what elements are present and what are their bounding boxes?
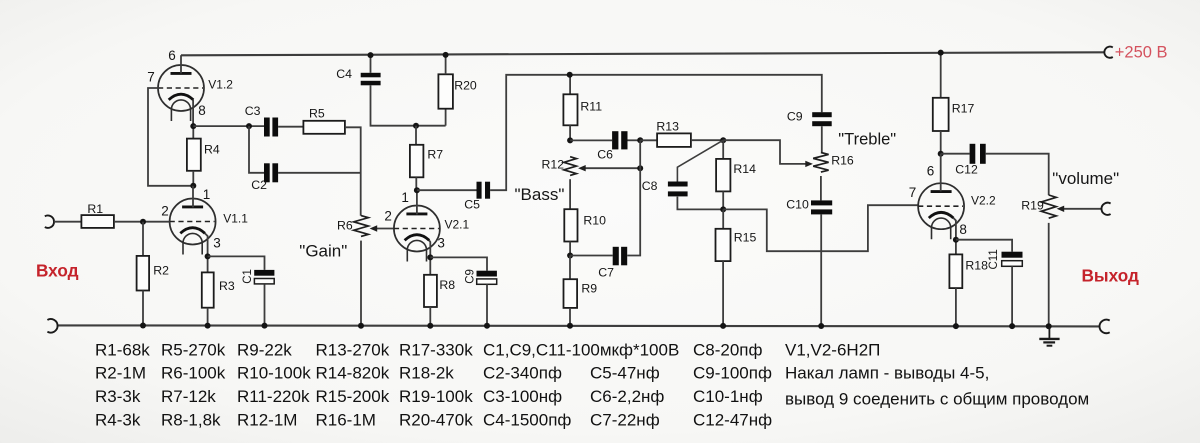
svg-text:R6: R6 [337,219,353,233]
wire V1.1 cathode pin 3 lead [205,233,208,256]
svg-text:C1: C1 [242,269,254,284]
svg-text:C2: C2 [251,178,267,192]
wire V2.1 plate to C5 [417,189,477,191]
svg-text:R15-200k: R15-200k [316,387,390,406]
resistor R14 body [716,159,730,192]
capacitor C11 (electrolytic) [1002,252,1023,267]
junction [368,52,374,58]
wire node to R13 [640,139,657,141]
wire R1 to V1.1 grid pin 2 [114,221,170,223]
wire ground bottom rail [57,325,1100,326]
resistor R20 body [438,74,453,108]
wire R16 to C10 [820,176,822,200]
wire R18 to ground rail [955,288,957,326]
wire cathode node to C1 [208,256,265,270]
svg-text:R11-220k: R11-220k [237,387,310,406]
junction [413,123,419,129]
svg-text:C3-100нф: C3-100нф [483,387,562,406]
triode V2.2 [918,183,964,239]
wire node to R15 [722,209,724,228]
junction [953,323,959,329]
svg-text:R6-100k: R6-100k [161,364,226,383]
wire V1.2 grid pin 7 to R4 bottom [148,88,193,186]
wire V2.1 plate pin 1 riser [416,190,418,214]
svg-text:R19-100k: R19-100k [399,387,473,406]
triode V1.2 [158,65,204,121]
wire C1 to ground rail [264,284,266,325]
junction [427,323,433,329]
wire C9 to R16 [821,126,823,152]
svg-text:Выход: Выход [1082,266,1139,286]
svg-text:1: 1 [401,190,409,205]
svg-text:R19: R19 [1021,199,1044,213]
potentiometer R16 zigzag [813,153,828,173]
potentiometer R19 wiper arrowhead [1057,206,1065,212]
terminal output ground (bottom right) [1100,320,1110,334]
svg-text:C5-47нф: C5-47нф [590,364,660,383]
junction [720,323,726,329]
svg-text:"Treble": "Treble" [838,131,896,149]
svg-text:C4: C4 [336,67,352,81]
capacitor C6 [612,131,627,149]
junction [1009,323,1015,329]
svg-text:3: 3 [437,236,445,251]
wire node to R20 [445,109,447,126]
wire C11 to ground rail [1011,266,1013,326]
svg-text:C6: C6 [597,148,613,162]
wire C8 diagonal from R13 node [677,140,723,181]
wire cathode node to C11 [956,240,1012,252]
svg-text:R17-330k: R17-330k [399,341,473,360]
wire V1.2 plate pin 6 to rail [180,55,182,73]
svg-text:C1,C9,C11-100мкф*100В: C1,C9,C11-100мкф*100В [483,341,679,360]
wire input to R1 [54,221,81,223]
svg-text:V2.2: V2.2 [971,194,996,208]
wire C12 to R19 top [986,154,1049,195]
junction [567,253,573,259]
wire R19 bottom to ground rail [1048,223,1050,326]
svg-text:C4-1500пф: C4-1500пф [483,410,571,429]
terminal output (signal) [1101,203,1110,215]
junction [140,323,146,329]
svg-text:R3: R3 [219,279,235,293]
svg-text:R11: R11 [580,99,602,113]
svg-text:R1: R1 [87,202,103,216]
svg-text:R14-820k: R14-820k [316,364,390,383]
capacitor C7 [613,247,627,265]
svg-text:R9-22k: R9-22k [237,341,292,360]
wire node to R7 [415,126,417,145]
svg-text:C6-2,2нф: C6-2,2нф [590,387,664,406]
wire cathode node to C9 bypass [430,257,487,270]
wire node to C6 [570,139,612,141]
svg-text:R18-2k: R18-2k [399,364,454,383]
svg-text:R8-1,8k: R8-1,8k [161,410,221,429]
wire pin8 node to R4 top [192,126,194,139]
resistor R2 body [137,256,150,291]
svg-text:R13: R13 [656,119,679,133]
svg-text:R15: R15 [734,230,757,244]
notes text [785,341,1089,409]
triode V2.1 [394,206,440,262]
wire tone stack out to V2.2 grid pin 7 [723,205,918,251]
wire top feed to R11 [569,75,571,95]
junction [567,137,573,143]
junction [414,187,420,193]
wire R4 bottom to grid node [192,171,194,186]
wire R12 wiper line [586,167,641,169]
svg-text:6: 6 [168,48,176,63]
svg-text:R17: R17 [952,101,975,115]
junction [443,52,449,58]
wire +250V top rail [181,52,1105,55]
svg-text:1: 1 [203,187,211,202]
svg-text:R10-100k: R10-100k [237,364,311,383]
wire R13 to node [691,139,723,141]
triode V1.1 [170,199,216,255]
wire node to C7 [570,255,613,257]
junction [953,237,959,243]
wire grid node to R2 [142,222,144,256]
svg-text:V2.1: V2.1 [445,217,470,231]
potentiometer R6 zigzag [354,216,369,237]
capacitor C3 [264,118,278,137]
wire R5 to R6 top [345,127,361,215]
terminal +250V supply [1104,47,1112,58]
resistor R1 body [81,215,114,228]
svg-text:R2-1M: R2-1M [95,364,146,383]
terminal input (top) [45,216,54,228]
svg-text:R7-12k: R7-12k [161,387,216,406]
svg-text:R3-3k: R3-3k [95,387,141,406]
svg-text:C10-1нф: C10-1нф [693,387,763,406]
svg-text:C2-340пф: C2-340пф [483,364,562,383]
capacitor C9 (treble) [812,112,832,126]
svg-text:7: 7 [147,70,155,85]
wire R6 wiper to V2.1 grid pin 2 [377,228,394,230]
wire node to R9 [569,256,571,280]
wire V1.1 plate pin 1 riser [192,186,194,208]
junction [567,323,573,329]
resistor R17 body [933,98,949,131]
svg-text:V1.1: V1.1 [223,212,248,226]
junction [938,151,944,157]
terminal ground terminal (bottom left) [47,319,57,333]
svg-text:R5: R5 [309,106,325,120]
wire R19 wiper to output terminal [1064,208,1102,210]
wire R17 to plate node [940,131,942,154]
svg-text:Накал ламп - выводы 4-5,: Накал ламп - выводы 4-5, [785,364,989,383]
wire R15 to ground rail [722,261,724,326]
svg-text:R13-270k: R13-270k [316,341,390,360]
svg-text:R7: R7 [427,147,443,161]
resistor R5 body [303,121,345,134]
resistor R7 body [410,145,424,178]
wire R8 to ground rail [429,307,431,326]
wire C2 to R6 vertical [278,172,361,174]
capacitor C5 [477,182,491,199]
svg-text:V1,V2-6Н2П: V1,V2-6Н2П [785,341,880,360]
svg-text:C11: C11 [988,249,1000,269]
junction [140,219,146,225]
svg-text:R4-3k: R4-3k [95,410,141,429]
wire rail to C4 [370,55,372,73]
junction [262,323,268,329]
svg-text:R2: R2 [153,263,169,277]
svg-text:R9: R9 [581,281,597,295]
junction [567,72,573,78]
capacitor C8 [668,182,688,197]
wire C5 to tone stack top feed [490,75,822,190]
resistor R18 body [949,254,962,288]
wire V2.2 plate pin 6 riser [940,154,942,192]
junction [720,206,726,212]
resistor R10 body [564,209,577,241]
junction [938,50,944,56]
wire R20 top to rail [445,55,447,74]
svg-text:2: 2 [384,209,392,224]
svg-text:C8-20пф: C8-20пф [693,341,763,360]
wire node to R16 wiper [723,140,806,164]
wire C6 to vertical node [628,139,641,141]
potentiometer R16 wiper arrowhead [805,161,813,167]
svg-text:вывод 9 соеденить с общим пров: вывод 9 соеденить с общим проводом [785,389,1089,408]
capacitor C9 (bypass) (electrolytic) [477,271,497,285]
svg-text:8: 8 [198,103,206,118]
svg-text:C8: C8 [642,179,658,193]
wire V1.2 cathode pin 8 lead [192,100,194,127]
wire R2 to ground rail [142,291,144,326]
wire R7 to V2.1 plate node [415,177,417,190]
svg-text:C3: C3 [245,104,261,118]
svg-text:R12: R12 [542,158,565,172]
resistor R4 body [187,139,201,171]
svg-text:R20: R20 [454,79,477,93]
svg-text:R8: R8 [439,278,455,292]
wire cathode node to R18 [955,240,957,255]
svg-text:C12: C12 [955,163,978,177]
junction [427,254,433,260]
resistor R11 body [563,94,577,125]
junction [637,165,643,171]
potentiometer R19 zigzag [1041,195,1056,218]
wire plate node to C12 [941,153,970,155]
wire C2 branch down [249,126,264,173]
svg-text:"Gain": "Gain" [299,242,347,261]
svg-text:R10: R10 [583,213,606,227]
wire cathode node to R3 [207,256,209,272]
svg-text:V1.2: V1.2 [208,78,233,92]
capacitor C10 [811,200,832,214]
parts list table [95,341,772,430]
potentiometer R12 wiper arrowhead [578,165,586,171]
svg-text:"Bass": "Bass" [515,185,565,204]
capacitor C4 [361,73,381,86]
wire R12 to R10 [569,179,571,209]
svg-text:C7-22нф: C7-22нф [590,410,660,429]
svg-text:+250 В: +250 В [1115,44,1168,62]
wire C3 to R5 [278,126,303,128]
wire R3 to ground rail [207,308,209,326]
svg-text:R5-270k: R5-270k [161,341,226,360]
resistor R15 body [716,229,731,261]
wire C4 bottom to R20 bottom [371,85,446,125]
svg-text:C9: C9 [787,110,803,124]
svg-text:3: 3 [213,236,221,251]
svg-text:C7: C7 [598,266,614,280]
junction [190,123,196,129]
resistor R3 body [202,272,214,307]
capacitor C12 [970,144,986,164]
wire node to R14 [722,140,724,159]
wire V2.2 cathode pin 8 lead [953,218,956,240]
svg-text:"volume": "volume" [1052,169,1119,188]
wire R6 bottom to ground rail [360,241,362,326]
svg-text:C9-100пф: C9-100пф [693,364,772,383]
svg-text:8: 8 [959,222,967,237]
ground symbol [1039,327,1059,346]
junction [720,137,726,143]
svg-text:6: 6 [927,164,935,179]
junction [484,323,490,329]
wire R9 to ground rail [569,308,571,326]
wire V2.1 cathode pin 3 lead [429,240,430,257]
svg-text:R1-68k: R1-68k [95,341,150,360]
svg-text:C5: C5 [464,198,480,212]
wire C9 bypass to ground rail [486,284,488,326]
svg-text:2: 2 [161,204,169,219]
wire C8 bottom to R14 bottom node [677,197,723,210]
wire rail to R17 [940,53,942,98]
resistor R9 body [564,279,578,308]
svg-text:R4: R4 [204,142,220,156]
svg-text:R20-470k: R20-470k [399,410,473,429]
svg-text:R14: R14 [733,162,756,176]
junction [818,323,824,329]
potentiometer R12 zigzag [564,157,577,176]
capacitor C1 (electrolytic) [254,270,274,284]
wire cathode node to R8 [429,257,431,274]
svg-text:R16-1M: R16-1M [316,410,376,429]
svg-text:R16: R16 [831,153,854,167]
wire R11 to node [569,125,571,140]
svg-text:Вход: Вход [36,261,79,281]
resistor R8 body [424,275,437,307]
wire R10 to node [569,242,571,256]
resistor R13 body [657,133,691,147]
svg-text:C9: C9 [464,269,476,284]
junction [358,323,364,329]
wire C10 down across to ground rail [820,214,822,326]
capacitor C2 [264,163,278,182]
junction [205,253,211,259]
svg-text:C12-47нф: C12-47нф [693,410,772,429]
wire R14 to node [722,191,724,209]
potentiometer R6 wiper arrowhead [370,225,378,231]
junction [190,183,196,189]
junction [205,323,211,329]
junction [246,123,252,129]
svg-text:C10: C10 [786,198,809,212]
svg-text:R18: R18 [965,258,988,272]
junction [637,137,643,143]
svg-text:R12-1M: R12-1M [237,410,297,429]
junction [1046,323,1052,329]
wire pin8 node to C3 [193,125,264,127]
wire C7 up to C6/R13 node [627,140,640,255]
svg-text:7: 7 [909,185,917,200]
